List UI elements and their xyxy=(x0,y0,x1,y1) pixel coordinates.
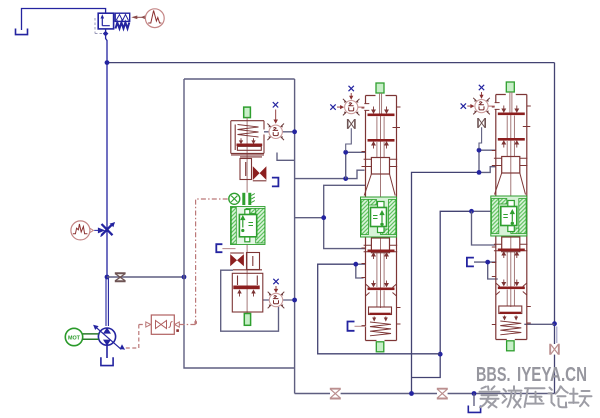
return springs xyxy=(370,322,391,336)
pilot orifice below Ch xyxy=(348,119,355,129)
wire V2 pilot vertical xyxy=(346,152,366,178)
plug X above Ch V1 bottom xyxy=(273,279,278,284)
node V3 spool pin xyxy=(469,209,474,214)
control dash left path xyxy=(125,325,146,349)
green end plug bottom xyxy=(376,342,384,352)
V1 compensator poppet lower xyxy=(230,254,244,266)
V1 main arrows xyxy=(238,290,255,296)
green end plug V1 bottom xyxy=(244,314,250,326)
pilot chamber Ch V1 bottom xyxy=(268,292,285,309)
arrow X to Ch xyxy=(350,93,353,99)
wire supply bus y62 xyxy=(107,62,555,64)
displacement control box B1 xyxy=(151,315,174,334)
wire pump outlet double line xyxy=(106,277,108,326)
spool mass block xyxy=(361,197,397,237)
arrow X to Ch V1 top xyxy=(274,110,277,123)
arrowhead into box right xyxy=(175,322,180,327)
wire P port V3 horizontal xyxy=(524,323,554,325)
node V3 pilot a xyxy=(477,148,482,153)
V1 pilot section body xyxy=(231,121,264,154)
valve body outline xyxy=(362,96,401,341)
wire V2 left port T xyxy=(295,170,365,178)
node V2 y217 xyxy=(321,215,326,220)
valve assembly V3 (reuse) xyxy=(461,82,531,351)
plug bracket V1 left xyxy=(216,244,222,252)
V1 spool stem xyxy=(246,118,248,314)
wire V1 chamber bottom link xyxy=(263,299,295,301)
svg-text:BBS.: BBS. xyxy=(476,363,511,386)
node V1 chamber top on frame xyxy=(292,129,297,134)
node junction relief outlet xyxy=(103,31,109,37)
plug X above Ch xyxy=(349,86,354,91)
node frame left y277 xyxy=(182,275,187,280)
pump P1 variable displacement xyxy=(93,325,125,350)
wire return frame around assembly V1 xyxy=(184,79,295,394)
tank T4 bottom right xyxy=(468,406,480,413)
wire V1 work loop bottom xyxy=(221,270,279,331)
wire V3 port y245 xyxy=(472,211,496,245)
wire V2 port y248 xyxy=(295,218,366,249)
text watermark chinese xyxy=(480,386,592,407)
wire V2 port y185 xyxy=(324,185,366,217)
wire LS A x411 xyxy=(412,172,479,393)
wire tank bus bottom y393 xyxy=(295,393,555,395)
link V2 bracket xyxy=(355,325,367,327)
wire V3 spool pin xyxy=(472,210,496,212)
node LS A on tank bus xyxy=(409,391,414,396)
pilot input circle V1 xyxy=(229,193,240,204)
stem V3 pilot xyxy=(479,127,482,149)
node V2 mid-left xyxy=(353,262,358,267)
V1 spool mass block xyxy=(231,207,266,245)
node V2 T-port xyxy=(343,176,348,181)
node control dot xyxy=(176,329,179,332)
land arrows xyxy=(372,107,388,321)
wire left riser x107 xyxy=(106,63,108,277)
orifice R4 on right riser xyxy=(550,344,559,355)
plug bracket V3 mid xyxy=(467,258,474,267)
green end plug top xyxy=(376,83,384,93)
arrow X to Ch V1 bottom xyxy=(275,286,278,292)
node dash corner dot xyxy=(194,321,197,324)
valve assembly V1 xyxy=(216,102,284,325)
actuator ticks xyxy=(251,194,255,203)
wire twin segment right riser xyxy=(556,327,558,344)
relief valve RV1 xyxy=(98,13,130,29)
wire branch y277 to left frame xyxy=(107,276,184,278)
node V1 chamber bottom on frame xyxy=(292,298,297,303)
svg-text:MOT: MOT xyxy=(68,335,81,341)
wire tank return top-left xyxy=(22,9,106,31)
arrow X to Ch left xyxy=(337,106,343,109)
gauge signal source SRC2 xyxy=(71,221,94,240)
spool stem xyxy=(380,93,382,308)
wire tank T4 stem xyxy=(473,394,475,407)
V1 compensator poppet upper xyxy=(253,166,267,180)
arrow gauge to throttle xyxy=(94,228,104,232)
node right riser P port V3 xyxy=(552,321,557,326)
svg-text:IYEYA.CN: IYEYA.CN xyxy=(517,363,587,386)
stem V2 pilot xyxy=(346,128,352,151)
node supply bus left xyxy=(105,60,110,65)
pilot chamber Ch V1 top xyxy=(267,124,284,141)
orifice R3 on tank bus xyxy=(437,389,448,399)
plug bracket V1 right xyxy=(272,178,279,187)
pilot dash relief xyxy=(95,18,103,34)
ORIFICES-LAYER xyxy=(115,273,559,398)
V1 main section body xyxy=(232,273,262,312)
V1 pilot piston land xyxy=(237,144,263,147)
tank T2 under pump xyxy=(101,346,113,366)
pilot actuator V1 xyxy=(242,193,251,205)
tank T1 top-left xyxy=(16,29,28,35)
wire LS B x440 xyxy=(412,211,472,377)
node V3 mid-left xyxy=(485,260,490,265)
node tank bus tap xyxy=(472,391,477,396)
piston lands xyxy=(368,114,395,291)
node LS B crossing xyxy=(438,352,443,357)
orifice R2 on tank bus xyxy=(330,389,341,399)
wire V3 pilot ports xyxy=(479,150,496,172)
valve stack body template (V2) xyxy=(330,83,400,352)
link V1 bracket xyxy=(222,248,235,250)
V1 main piston land xyxy=(233,286,259,290)
node left riser / branch xyxy=(105,275,110,280)
node V2 pilot xyxy=(343,150,348,155)
prime mover MOT xyxy=(65,328,98,345)
wire relief valve outlet down xyxy=(106,29,107,63)
V1 compensator section lower xyxy=(230,253,262,270)
plug X left of Ch xyxy=(330,104,335,109)
wire V2 mid-left port xyxy=(356,264,366,278)
wire V1 chamber top link xyxy=(264,131,295,133)
wire right riser x554 from supply bus xyxy=(554,63,556,344)
V1 pilot spring xyxy=(238,125,259,144)
arrowhead into box left xyxy=(146,322,151,327)
V1 compensator section upper xyxy=(231,155,266,181)
plug bracket V2 spring side xyxy=(348,322,355,331)
plug X above Ch V1 top xyxy=(273,102,278,107)
throttle X1 variable xyxy=(101,222,115,236)
wire V3 mid-left port xyxy=(474,262,498,279)
wire V1 right port y160 xyxy=(277,153,295,161)
wire right riser below orifice xyxy=(554,355,556,394)
node V3 pilot b xyxy=(477,170,482,175)
green end plug V1 top xyxy=(244,107,251,118)
pilot chamber Ch xyxy=(343,99,365,116)
control dash right path xyxy=(180,199,229,325)
wire signal to relief spring xyxy=(131,16,145,20)
signal source SRC1 xyxy=(145,9,164,28)
wire LS loop V2 xyxy=(318,264,441,354)
orifice R1 on y277 xyxy=(115,273,126,281)
